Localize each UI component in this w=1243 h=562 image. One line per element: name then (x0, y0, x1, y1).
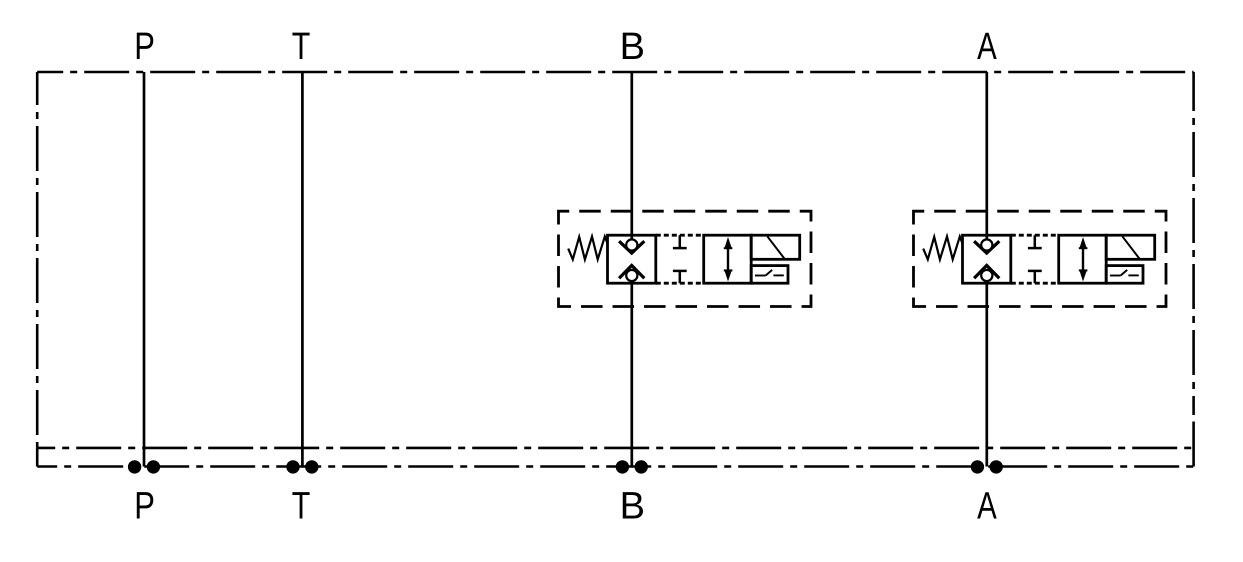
port A interface seal dots (971, 460, 984, 473)
valve A solenoid (1106, 235, 1155, 259)
manifold plate outline left edge lower solid segment (36, 448, 39, 467)
port label B (bottom) (620, 485, 645, 527)
port T interface seal dots (286, 460, 299, 473)
mounting interface upper chain line (37, 447, 1193, 450)
valve A position-1 box (963, 235, 1011, 283)
svg-text:T: T (292, 485, 311, 527)
valve A transition blocked port lower (T symbol) (1034, 271, 1037, 283)
valve A return spring (923, 237, 962, 260)
valve B bidirectional flow arrow (727, 246, 729, 273)
port label A (top) (977, 25, 997, 67)
valve B position-2 box (704, 235, 752, 283)
valve B transition blocked port lower (T symbol) (679, 271, 682, 283)
port label P (top) (134, 26, 155, 68)
port label T (bottom) (292, 485, 311, 527)
valve B lower check poppet (ball on seat) (619, 265, 644, 278)
manifold plate outline left edge (chain line) (36, 72, 39, 448)
manifold plate outline right edge lower solid segment (1192, 422, 1195, 467)
valve A lower check poppet (ball on seat) (974, 265, 999, 278)
valve A transition box dashed edges (1011, 234, 1059, 237)
manifold plate outline right edge (chain line) (1192, 72, 1195, 415)
port label P (bottom) (134, 485, 155, 527)
valve B position switch (751, 266, 788, 284)
manifold plate outline top edge (chain line) (37, 71, 1193, 74)
valve B solenoid (751, 235, 800, 259)
port B interface seal dots (616, 460, 629, 473)
svg-text:B: B (620, 485, 645, 527)
valve B upper check poppet (ball on seat) (619, 241, 644, 253)
svg-text:A: A (977, 25, 997, 67)
port P interface seal dots (128, 460, 141, 473)
svg-text:T: T (292, 26, 311, 68)
valve A position switch (1106, 266, 1143, 284)
valve B transition blocked port upper (T symbol) (679, 235, 682, 248)
valve A position-2 box (1059, 235, 1107, 283)
wire port line A lower segment (985, 281, 988, 467)
wire port line P (143, 72, 146, 467)
svg-text:P: P (134, 485, 155, 527)
svg-text:P: P (134, 26, 155, 68)
port label T (top) (292, 26, 311, 68)
valve A upper check poppet (ball on seat) (974, 241, 999, 253)
valve A transition blocked port upper (T symbol) (1034, 235, 1037, 248)
wire port line B lower segment (630, 281, 633, 467)
port label A (bottom) (977, 485, 997, 527)
svg-text:A: A (977, 485, 997, 527)
valve B position-1 box (608, 235, 656, 283)
svg-text:B: B (620, 26, 645, 68)
valve B enclosure (dashed envelope) (559, 211, 812, 306)
wire port line A upper segment (985, 72, 988, 240)
valve B transition box dashed edges (656, 234, 704, 237)
valve B return spring (568, 237, 607, 260)
port label B (top) (620, 26, 645, 68)
wire port line T (301, 72, 304, 467)
valve A bidirectional flow arrow (1082, 246, 1084, 273)
valve A enclosure (dashed envelope) (914, 211, 1167, 306)
wire port line B upper segment (630, 72, 633, 240)
mounting interface lower chain line (37, 465, 1193, 468)
